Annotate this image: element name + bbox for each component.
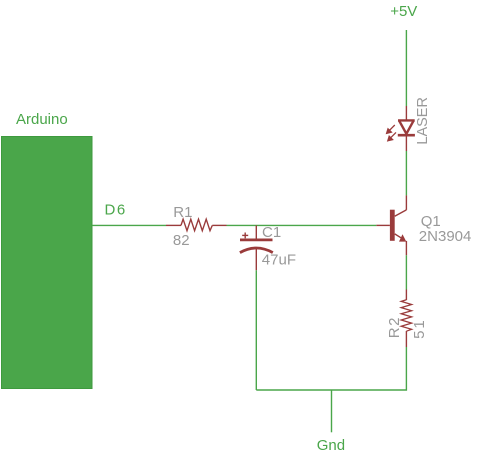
svg-text:R1: R1 [173,204,192,221]
svg-text:C1: C1 [262,224,281,241]
transistor Q1 collector lead [395,195,407,216]
LED cathode lead [405,135,407,151]
svg-text:+5V: +5V [390,3,417,20]
resistor R1 right lead [212,224,226,226]
svg-text:51: 51 [411,318,428,339]
capacitor C1 top lead [255,225,257,238]
resistor R1 zigzag [181,219,212,231]
wire ground stub [331,390,333,432]
svg-text:D6: D6 [105,201,127,218]
resistor R1 left lead [166,224,181,226]
wire R1 to C1 junction to Q1 base [227,224,377,226]
svg-text:LASER: LASER [415,97,431,145]
transistor Q1 base bar [390,210,395,241]
capacitor C1 bottom curved plate [240,248,273,253]
resistor R2 top lead [405,290,407,301]
wire +5V vertical [405,30,407,106]
svg-text:R2: R2 [386,316,403,338]
svg-text:82: 82 [173,232,190,249]
wire C1 to bottom rail [255,270,257,390]
capacitor C1 plus sign [242,233,248,239]
transistor Q1 base lead [376,224,390,226]
wire R2 to bottom rail [256,347,406,390]
capacitor C1 top plate [240,238,273,241]
LED emission arrow 2 [388,132,396,140]
svg-text:Gnd: Gnd [317,437,345,454]
LED cathode bar [398,134,415,137]
capacitor C1 bottom lead [255,249,257,271]
svg-text:Arduino: Arduino [16,111,68,128]
resistor R2 bottom lead [405,331,407,347]
svg-text:2N3904: 2N3904 [419,228,472,245]
Arduino block [2,137,93,389]
wire D6 from Arduino to R1 [92,224,166,226]
wire LED to Q1 collector [405,151,407,195]
svg-text:47uF: 47uF [262,251,296,268]
transistor Q1 emitter with arrow [395,234,407,255]
LED triangle [398,120,415,133]
resistor R2 zigzag [401,300,411,331]
LED emission arrow 1 [387,125,395,133]
wire Q1 emitter to R2 [405,255,407,289]
LED anode lead [405,106,407,120]
